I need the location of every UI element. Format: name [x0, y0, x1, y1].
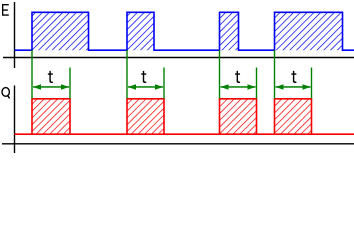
- E pulse 1 hatch: [32, 12, 89, 50]
- Q vertical axis: [14, 86, 16, 154]
- Q pulse 2 outline: [127, 99, 164, 134]
- t marker 3 end line: [256, 68, 258, 99]
- t marker 3 arrow: [221, 84, 256, 90]
- t marker 2 arrow: [128, 84, 163, 90]
- timing diagram: monostable E input / Q output: [0, 0, 354, 154]
- t marker 1 arrow: [33, 84, 69, 90]
- t marker 1 trigger line: [31, 50, 33, 99]
- E horizontal axis: [3, 57, 354, 59]
- t marker 2 label: [141, 71, 146, 83]
- node E label: [2, 4, 9, 16]
- t marker 3 trigger line: [219, 50, 221, 99]
- t marker 3 label: [235, 71, 240, 83]
- t marker 4 end line: [311, 68, 313, 99]
- Q pulse 3 outline: [220, 99, 257, 134]
- t marker 2 trigger line: [126, 50, 128, 99]
- t marker 1 end line: [69, 68, 71, 99]
- Q horizontal axis: [2, 143, 354, 145]
- Q pulse 4 hatch: [275, 99, 312, 134]
- t marker 2 end line: [163, 68, 165, 99]
- E pulse 2 hatch: [127, 12, 154, 50]
- t marker 4 trigger line: [274, 50, 276, 99]
- t marker 4 label: [291, 71, 296, 83]
- Q pulse 3 hatch: [220, 99, 257, 134]
- Q pulse 1 hatch: [32, 99, 70, 134]
- node Q label: [1, 87, 10, 97]
- E pulse 3 hatch: [220, 12, 239, 50]
- t marker 1 label: [48, 71, 53, 83]
- Q pulse 1 outline: [32, 99, 70, 134]
- E pulse 4 hatch: [275, 12, 343, 50]
- E waveform trace: [15, 12, 354, 50]
- E vertical axis: [14, 2, 16, 68]
- Q pulse 2 hatch: [127, 99, 164, 134]
- t marker 4 arrow: [276, 84, 311, 90]
- Q baseline: [15, 133, 354, 135]
- Q pulse 4 outline: [275, 99, 312, 134]
